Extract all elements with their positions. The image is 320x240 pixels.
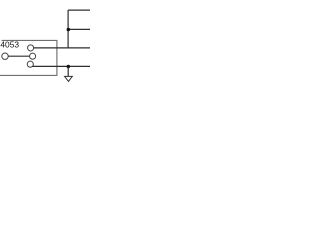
IC U1 (4053 analog multiplexer) body outline xyxy=(0,40,57,75)
switch throw circle top xyxy=(28,45,34,51)
switch pole circle xyxy=(30,53,36,59)
wire top branch xyxy=(68,9,90,11)
ground stem xyxy=(67,66,69,76)
junction dot middle branch xyxy=(67,28,71,32)
wire common pin to pole xyxy=(8,55,29,57)
wire net Y (throw bottom to right edge) xyxy=(33,65,90,67)
wire vertical riser xyxy=(67,10,69,48)
wire net X (throw top to right edge) xyxy=(34,47,91,49)
wire middle branch xyxy=(68,28,90,30)
pin circle common (left) xyxy=(2,53,8,59)
ground symbol triangle xyxy=(65,76,73,81)
svg-text:4053: 4053 xyxy=(0,40,19,50)
switch throw circle bottom xyxy=(27,61,33,67)
junction dot ground net xyxy=(67,65,71,69)
